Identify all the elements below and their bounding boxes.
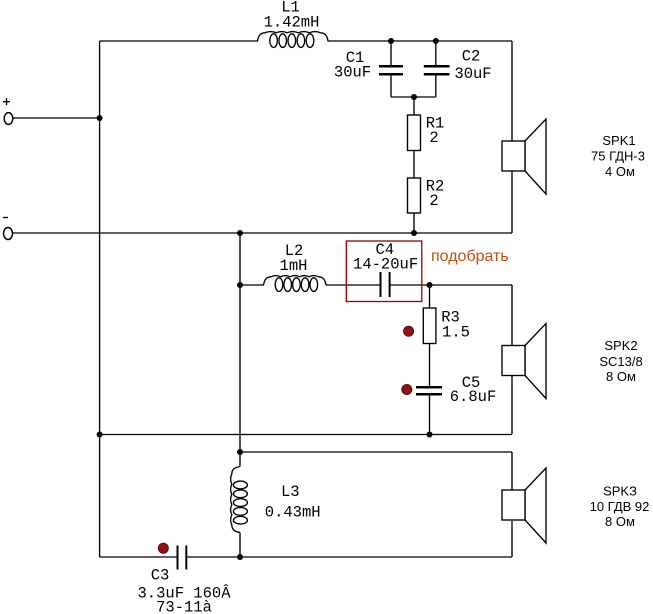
- svg-text:8 Ом: 8 Ом: [606, 369, 636, 384]
- svg-text:SC13/8: SC13/8: [599, 354, 642, 369]
- svg-text:1.42mH: 1.42mH: [264, 14, 320, 32]
- svg-text:SPK1: SPK1: [602, 133, 635, 148]
- svg-text:1mH: 1mH: [280, 257, 308, 275]
- svg-text:8 Ом: 8 Ом: [605, 514, 635, 529]
- svg-text:1.5: 1.5: [442, 324, 470, 342]
- svg-text:2: 2: [429, 129, 438, 147]
- svg-text:75 ГДН-3: 75 ГДН-3: [591, 149, 645, 164]
- svg-text:73-11à: 73-11à: [156, 598, 212, 614]
- svg-text:0.43mH: 0.43mH: [265, 503, 321, 521]
- svg-text:L3: L3: [281, 483, 300, 501]
- svg-text:SPKЗ: SPKЗ: [603, 484, 637, 499]
- svg-text:SPK2: SPK2: [604, 338, 637, 353]
- svg-text:10 ГДВ 92: 10 ГДВ 92: [590, 499, 650, 514]
- svg-text:C2: C2: [462, 48, 481, 66]
- svg-text:подобрать: подобрать: [431, 248, 509, 265]
- svg-text:30uF: 30uF: [454, 65, 491, 83]
- svg-text:4 Ом: 4 Ом: [605, 164, 635, 179]
- svg-text:2: 2: [429, 192, 438, 210]
- svg-text:6.8uF: 6.8uF: [450, 388, 497, 406]
- svg-text:30uF: 30uF: [334, 64, 371, 82]
- svg-text:14-20uF: 14-20uF: [353, 256, 418, 274]
- svg-text:C3: C3: [151, 567, 170, 585]
